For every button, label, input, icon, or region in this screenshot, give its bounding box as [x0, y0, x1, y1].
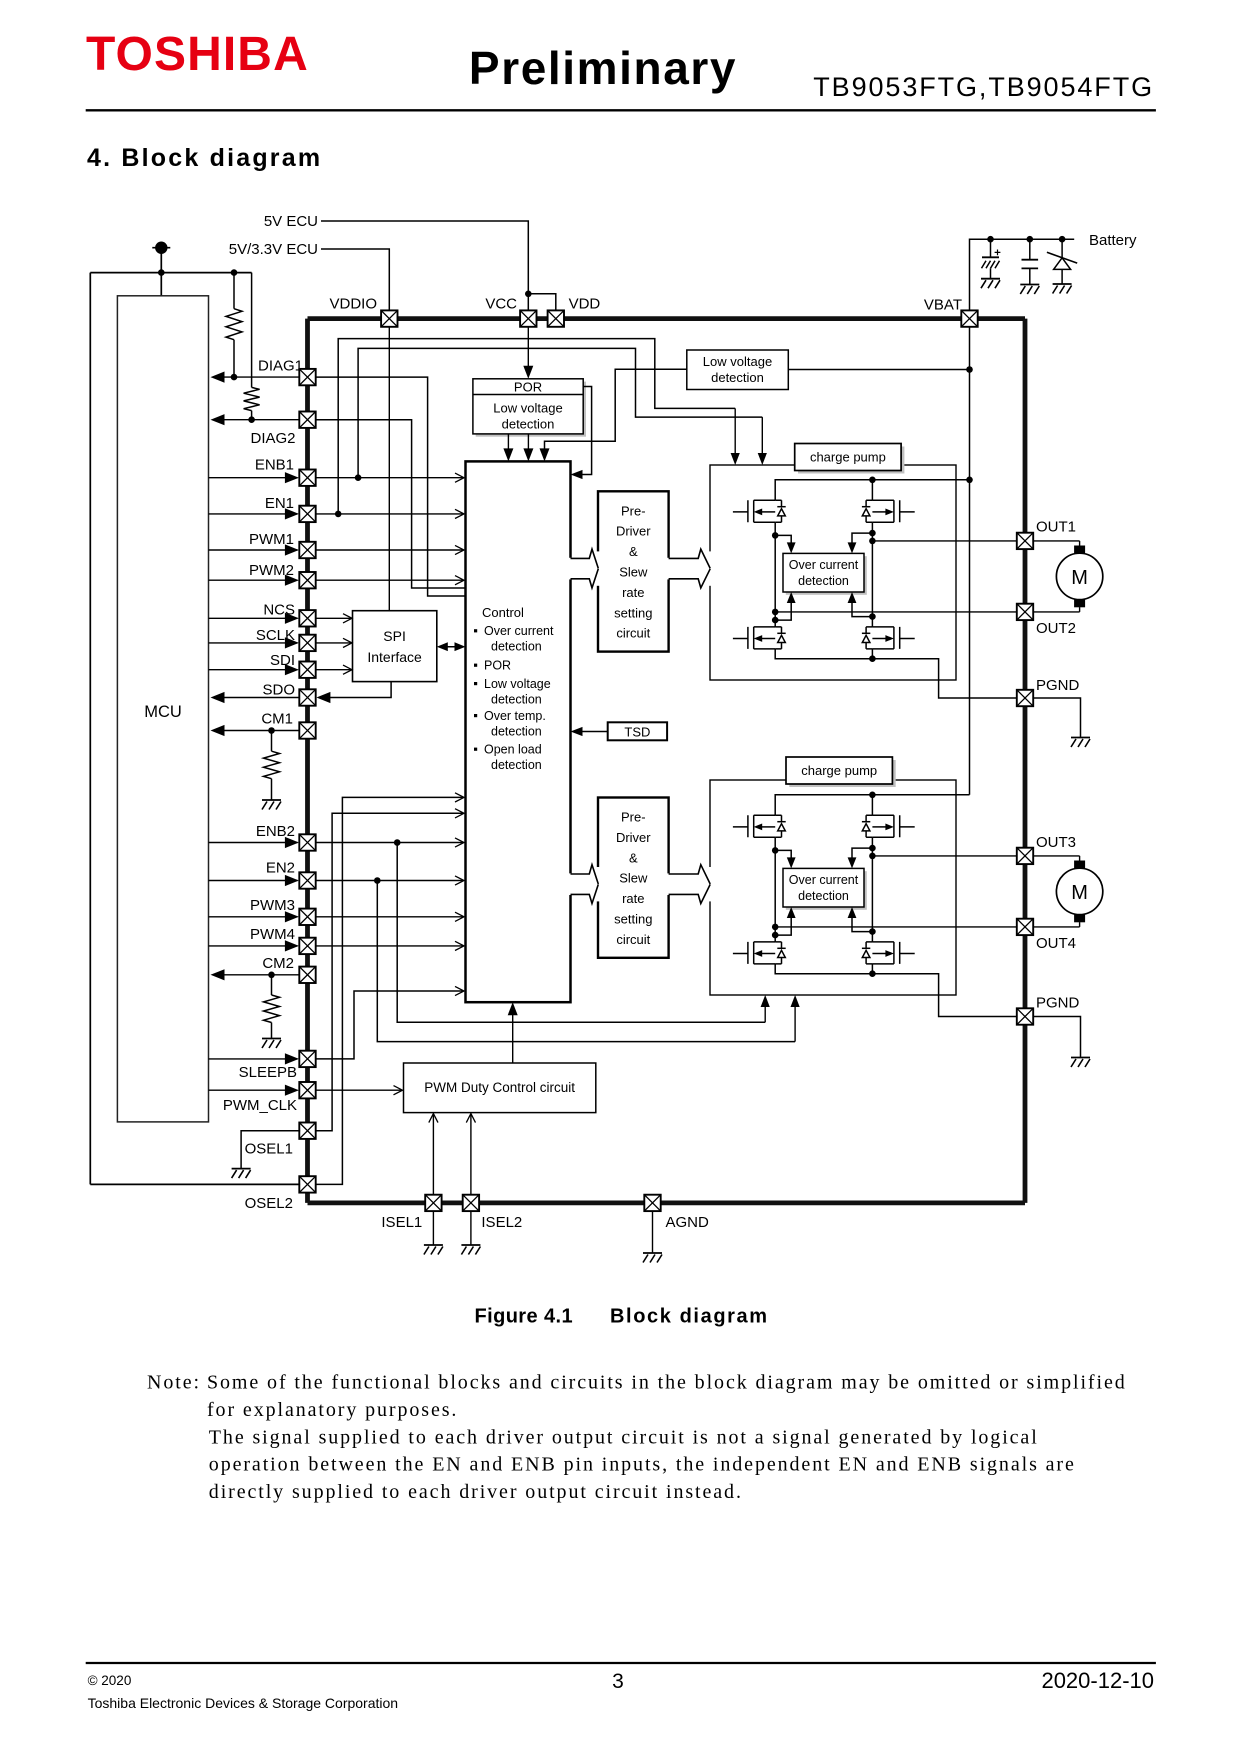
pin OUT4: [1017, 919, 1033, 935]
svg-text:VBAT: VBAT: [924, 297, 962, 314]
block arrow Pre-Driver 1 to H-bridge 1: [666, 558, 671, 580]
wire right tap to over-current detection bottom: [852, 595, 872, 617]
pin SDO: [299, 689, 315, 705]
svg-text:detection: detection: [798, 574, 849, 588]
wire PWM1 from MCU: [209, 549, 298, 551]
svg-text:detection: detection: [502, 416, 555, 431]
H-bridge box: [710, 780, 956, 995]
pin VBAT: [961, 310, 977, 326]
over current detection box shadow: [786, 556, 867, 595]
svg-text:rate: rate: [622, 585, 644, 600]
svg-text:VDD: VDD: [569, 296, 601, 313]
Low voltage detection block: [687, 350, 789, 390]
wire PWM1 to Control: [316, 549, 464, 551]
ground of AGND: [643, 1252, 662, 1254]
junction left leg upper: [772, 532, 779, 539]
wire EN2 from MCU: [209, 880, 298, 882]
svg-text:Toshiba Electronic Devices & S: Toshiba Electronic Devices & Storage Cor…: [88, 1695, 399, 1711]
over current detection box: [783, 868, 864, 907]
ground of R4: [262, 1038, 281, 1040]
wire ISEL2 to PWM Duty: [470, 1114, 472, 1195]
svg-text:OUT1: OUT1: [1036, 519, 1076, 536]
junction bottom rail: [869, 970, 876, 977]
pin OUT1: [1017, 533, 1033, 549]
svg-text:detection: detection: [491, 758, 542, 772]
junction bottom rail: [869, 655, 876, 662]
pin SLEEPB: [299, 1051, 315, 1067]
wire 5V ECU to VCC and VDD: [321, 221, 528, 311]
pin CM1: [299, 722, 315, 738]
svg-text:© 2020: © 2020: [88, 1673, 132, 1688]
wire OUT upper: [872, 855, 1016, 857]
svg-text:PWM Duty Control circuit: PWM Duty Control circuit: [424, 1080, 575, 1095]
wire left leg: [774, 837, 776, 942]
MCU block: [117, 296, 208, 1122]
junction right leg lower: [869, 928, 876, 935]
wire VBAT internal vertical: [969, 327, 971, 795]
junction ENB1 branch: [355, 474, 362, 481]
wire PWM2 to Control: [316, 579, 464, 581]
wire OUT lower: [775, 926, 1017, 928]
junction CM2 resistor: [268, 972, 275, 979]
svg-text:EN2: EN2: [266, 860, 295, 877]
svg-text:ISEL1: ISEL1: [381, 1214, 422, 1231]
pin PWM4: [299, 938, 315, 954]
pin PWM1: [299, 542, 315, 558]
svg-text:charge pump: charge pump: [801, 763, 877, 778]
wire SDI from MCU: [209, 669, 298, 671]
wire SDO to MCU: [221, 697, 300, 699]
svg-text:4. Block diagram: 4. Block diagram: [87, 144, 322, 172]
svg-text:Over current: Over current: [789, 558, 859, 572]
svg-text:POR: POR: [484, 659, 511, 673]
junction rail-R1: [231, 269, 238, 276]
pin PGND lower: [1017, 1008, 1033, 1024]
junction EN1 branch: [335, 511, 342, 518]
pin AGND: [644, 1195, 660, 1211]
low-side FET right: [862, 942, 915, 964]
wire right leg: [871, 522, 873, 627]
capacitor C2: [1029, 239, 1031, 260]
ground of C1: [981, 278, 1000, 280]
wire bridge top rail to VBAT: [775, 795, 969, 816]
junction ENB2 branch: [394, 839, 401, 846]
svg-text:VCC: VCC: [485, 296, 517, 313]
wire left tap to over-current detection bottom: [775, 595, 791, 620]
wire LVD to Control top (line C): [545, 369, 687, 458]
svg-text:directly supplied to each driv: directly supplied to each driver output …: [209, 1481, 743, 1503]
svg-text:detection: detection: [491, 640, 542, 654]
pin ISEL1: [425, 1195, 441, 1211]
ground of C2: [1020, 284, 1039, 286]
supply terminal node on left rail: [152, 247, 170, 249]
high-side FET left: [733, 500, 786, 522]
svg-text:CM1: CM1: [261, 711, 293, 728]
resistor R2 pull-up to DIAG2: [251, 273, 253, 388]
high-side FET right: [862, 500, 915, 522]
pin ISEL2: [463, 1195, 479, 1211]
svg-text:circuit: circuit: [616, 932, 650, 947]
TSD block: [608, 722, 667, 740]
junction VBAT-bridge1: [966, 477, 973, 484]
wire ENB2 from MCU: [209, 842, 298, 844]
motor M2: [1033, 855, 1079, 857]
svg-text:Open load: Open load: [484, 743, 542, 757]
svg-text:TB9053FTG,TB9054FTG: TB9053FTG,TB9054FTG: [813, 72, 1154, 102]
svg-text:ENB1: ENB1: [255, 457, 294, 474]
pin DIAG1: [299, 369, 315, 385]
capacitor C1 electrolytic: [990, 239, 992, 257]
svg-text:SDO: SDO: [262, 682, 295, 699]
wire right leg: [871, 837, 873, 942]
svg-text:SLEEPB: SLEEPB: [239, 1064, 297, 1081]
wire CM1 to MCU: [221, 730, 300, 732]
charge pump label shadow: [798, 447, 904, 474]
H-bridge box: [710, 465, 956, 680]
pin EN2: [299, 872, 315, 888]
node VCC/VDD split: [525, 291, 532, 298]
wire LVD to VBAT line: [788, 369, 969, 371]
svg-text:TOSHIBA: TOSHIBA: [86, 28, 309, 81]
resistor R3 on CM1: [271, 731, 273, 752]
svg-text:AGND: AGND: [666, 1214, 710, 1231]
wire 5V/3.3V ECU to VDDIO: [321, 249, 389, 311]
Control block: [466, 461, 571, 1002]
junction top rail right FET: [869, 477, 876, 484]
wire ENB2 to bridge 2: [397, 843, 765, 1023]
junction top rail right FET: [869, 792, 876, 799]
wire OUT lower: [775, 611, 1017, 613]
svg-text:detection: detection: [491, 724, 542, 738]
junction left leg out: [772, 609, 779, 616]
svg-text:for explanatory purposes.: for explanatory purposes.: [207, 1399, 458, 1421]
wire OSEL2 to Control: [317, 797, 464, 1184]
svg-text:Low voltage: Low voltage: [484, 677, 551, 691]
svg-text:Preliminary: Preliminary: [469, 42, 737, 94]
pin OSEL2: [299, 1176, 315, 1192]
resistor R1 pull-up to DIAG1: [233, 273, 235, 309]
wire battery rail: [970, 239, 1075, 310]
block arrow Control to Pre-Driver 2: [568, 873, 573, 895]
junction left leg lower: [772, 617, 779, 624]
high-side FET right: [862, 815, 915, 837]
svg-text:setting: setting: [614, 912, 652, 927]
ground of R3: [262, 799, 281, 801]
svg-text:PWM4: PWM4: [250, 926, 295, 943]
svg-text:Pre-: Pre-: [621, 503, 646, 518]
svg-text:M: M: [1071, 882, 1088, 904]
svg-text:Control: Control: [482, 605, 524, 620]
pin DIAG2: [299, 412, 315, 428]
pin OUT2: [1017, 604, 1033, 620]
ground of OSEL1: [232, 1168, 251, 1170]
junction battery-C1: [987, 236, 994, 243]
svg-text:M: M: [1071, 567, 1088, 589]
svg-text:Block diagram: Block diagram: [610, 1306, 769, 1328]
pin PWM_CLK: [299, 1082, 315, 1098]
pin OUT3: [1017, 848, 1033, 864]
svg-text:ISEL2: ISEL2: [481, 1214, 522, 1231]
svg-text:MCU: MCU: [144, 703, 182, 721]
pin ENB1: [299, 470, 315, 486]
wire EN2 to Control: [316, 880, 464, 882]
wire DIAG2 from Control: [317, 420, 466, 588]
svg-text:ENB2: ENB2: [256, 823, 295, 840]
svg-text:Over temp.: Over temp.: [484, 709, 546, 723]
pin SDI: [299, 662, 315, 678]
wire bridge top rail to VBAT: [775, 480, 969, 501]
wire SCLK from MCU: [209, 642, 298, 644]
high-side FET left: [733, 815, 786, 837]
svg-text:&: &: [629, 850, 638, 865]
svg-text:PWM3: PWM3: [250, 897, 295, 914]
wire ENB1 from MCU: [209, 477, 298, 479]
footer rule: [86, 1662, 1156, 1664]
wire bottom rail to PGND: [775, 649, 1017, 698]
Pre-Driver Slew rate setting circuit block 2: [598, 798, 669, 958]
motor M1: [1033, 540, 1079, 542]
wire DIAG2 to MCU: [221, 419, 300, 421]
wire SPI to SDO pin: [319, 682, 391, 698]
wire EN1 from MCU: [209, 513, 298, 515]
charge pump label box: [795, 444, 901, 471]
wire SPI to Control bidirectional arrow: [439, 646, 463, 648]
block arrow Control to Pre-Driver 1: [568, 558, 573, 580]
Pre-Driver Slew rate setting circuit block 1: [598, 491, 669, 651]
junction left leg out: [772, 924, 779, 931]
svg-text:circuit: circuit: [616, 626, 650, 641]
junction R1-DIAG1: [231, 374, 238, 381]
svg-text:OSEL1: OSEL1: [245, 1141, 293, 1158]
wire PWM4 from MCU: [209, 945, 298, 947]
POR / low voltage detection block shadow: [476, 382, 586, 437]
IC boundary left edge: [305, 319, 310, 1203]
wire TSD to Control: [574, 731, 608, 733]
IC boundary top edge: [308, 316, 1026, 321]
wire bottom rail to PGND: [775, 964, 1017, 1017]
svg-text:Figure 4.1: Figure 4.1: [475, 1306, 573, 1328]
svg-text:OUT3: OUT3: [1036, 834, 1076, 851]
junction right leg lower: [869, 613, 876, 620]
pin VDDIO: [381, 310, 397, 326]
wire EN1 to bridge 1 (line A): [338, 339, 735, 514]
IC boundary right edge: [1023, 319, 1028, 1203]
POR / low voltage detection block: [473, 379, 583, 434]
pin PWM2: [299, 572, 315, 588]
junction EN2 branch: [374, 877, 381, 884]
zener diode D1: [1061, 239, 1063, 258]
wire right tap to over-current detection bottom: [852, 910, 872, 932]
svg-text:OUT4: OUT4: [1036, 935, 1076, 952]
wire PWM3 from MCU: [209, 916, 298, 918]
wire ISEL2 to ground: [470, 1211, 472, 1245]
svg-text:setting: setting: [614, 605, 652, 620]
junction left leg upper: [772, 847, 779, 854]
svg-text:&: &: [629, 544, 638, 559]
junction VBAT-LVD: [966, 366, 973, 373]
svg-text:detection: detection: [711, 370, 764, 385]
svg-text:rate: rate: [622, 891, 644, 906]
wire SLEEPB from MCU: [209, 1058, 298, 1060]
svg-text:Over current: Over current: [789, 873, 859, 887]
junction R2-DIAG2: [248, 416, 255, 423]
wire DIAG1 to MCU: [221, 376, 300, 378]
svg-text:SDI: SDI: [270, 652, 295, 669]
wire ISEL1 to ground: [432, 1211, 434, 1245]
svg-text:POR: POR: [514, 379, 542, 394]
left supply rail vertical down to OSEL2: [89, 273, 91, 1185]
ground of ISEL1: [424, 1244, 443, 1246]
wire enable arrow left into bridge top: [734, 408, 736, 462]
wire enable arrow right into bridge bottom: [794, 998, 796, 1042]
junction right leg out: [869, 853, 876, 860]
wire PWM2 from MCU: [209, 579, 298, 581]
ground PGND upper: [1071, 737, 1090, 739]
svg-text:Over current: Over current: [484, 624, 554, 638]
wire ENB1 to Control: [316, 477, 464, 479]
resistor R4 on CM2: [271, 975, 273, 995]
low-side FET right: [862, 627, 915, 649]
wire NCS from MCU: [209, 617, 298, 619]
pin VDD: [548, 310, 564, 326]
wire enable arrow right into bridge top: [761, 417, 763, 462]
wire OUT upper: [872, 540, 1016, 542]
left supply rail horizontal: [90, 272, 251, 274]
wire SDI to SPI: [317, 669, 352, 671]
svg-text:DIAG2: DIAG2: [250, 430, 295, 447]
wire PGND upper to ground: [1033, 698, 1080, 738]
wire SCLK to SPI: [317, 642, 352, 644]
svg-text:Low voltage: Low voltage: [703, 354, 772, 369]
pin PWM3: [299, 909, 315, 925]
svg-text:detection: detection: [798, 889, 849, 903]
ground of ISEL2: [461, 1244, 480, 1246]
svg-text:PWM_CLK: PWM_CLK: [223, 1097, 297, 1114]
block arrow Pre-Driver 2 to H-bridge 2: [666, 873, 671, 895]
charge pump label shadow: [789, 760, 895, 787]
wire OSEL2 to left rail: [90, 1183, 300, 1185]
wire right tap to over-current detection top: [852, 848, 872, 865]
svg-text:Driver: Driver: [616, 830, 651, 845]
svg-text:EN1: EN1: [265, 495, 294, 512]
svg-text:Driver: Driver: [616, 524, 651, 539]
pin PGND upper: [1017, 690, 1033, 706]
wire left tap to over-current detection top: [775, 850, 791, 865]
wire AGND to ground: [652, 1211, 654, 1253]
low-side FET left: [733, 627, 786, 649]
svg-text:OUT2: OUT2: [1036, 620, 1076, 637]
wire PWM_CLK from MCU: [209, 1089, 298, 1091]
svg-text:Slew: Slew: [619, 565, 648, 580]
IC boundary bottom edge: [308, 1201, 1026, 1206]
pin CM2: [299, 967, 315, 983]
wire enable arrow left into bridge bottom: [764, 998, 766, 1022]
wire OSEL1 to Control: [317, 813, 464, 1130]
wire POR output 1 to Control: [507, 434, 509, 459]
wire POR right output to Control right edge: [574, 387, 592, 475]
wire PWM_CLK to PWM Duty Control circuit: [317, 1089, 402, 1091]
svg-text:charge pump: charge pump: [810, 450, 886, 465]
svg-text:OSEL2: OSEL2: [245, 1195, 293, 1212]
wire VCC to POR with arrow: [527, 327, 529, 376]
svg-text:Battery: Battery: [1089, 232, 1137, 249]
wire left tap to over-current detection bottom: [775, 910, 791, 935]
ground PGND lower: [1071, 1057, 1090, 1059]
junction right leg upper: [869, 530, 876, 537]
svg-text:Pre-: Pre-: [621, 810, 646, 825]
svg-text:VDDIO: VDDIO: [329, 296, 377, 313]
svg-text:The signal supplied to each dr: The signal supplied to each driver outpu…: [209, 1426, 1039, 1448]
pin NCS: [299, 610, 315, 626]
over current detection box shadow: [786, 871, 867, 910]
junction battery-C2: [1027, 236, 1034, 243]
wire right tap to over-current detection top: [852, 533, 872, 550]
PWM Duty Control circuit block: [404, 1063, 596, 1113]
wire PGND lower to ground: [1033, 1017, 1080, 1058]
SPI Interface block: [353, 611, 437, 682]
junction battery-D1: [1059, 236, 1066, 243]
svg-text:Slew: Slew: [619, 871, 648, 886]
pin VCC: [520, 310, 536, 326]
over current detection box: [783, 553, 864, 592]
charge pump label box: [786, 757, 892, 784]
junction rail-stub: [158, 269, 165, 276]
wire left tap to over-current detection top: [775, 535, 791, 550]
wire NCS to SPI: [317, 617, 352, 619]
wire ISEL1 to PWM Duty: [432, 1114, 434, 1195]
wire POR output 2 to Control: [527, 434, 529, 459]
header rule: [86, 109, 1156, 111]
svg-text:detection: detection: [491, 692, 542, 706]
svg-text:5V/3.3V ECU: 5V/3.3V ECU: [229, 241, 318, 258]
svg-text:PGND: PGND: [1036, 995, 1080, 1012]
wire EN2 to bridge 2: [377, 881, 795, 1042]
wire PWM4 to Control: [316, 945, 464, 947]
svg-text:2020-12-10: 2020-12-10: [1041, 1668, 1154, 1693]
wire PWM3 to Control: [316, 916, 464, 918]
wire CM2 to MCU: [221, 974, 300, 976]
svg-text:3: 3: [612, 1670, 624, 1693]
svg-text:5V ECU: 5V ECU: [264, 213, 318, 230]
wire VDDIO to SPI Interface: [388, 327, 390, 611]
svg-text:TSD: TSD: [624, 724, 650, 739]
svg-text:SPI: SPI: [383, 628, 406, 644]
junction left leg lower: [772, 932, 779, 939]
wire EN1 to Control: [316, 513, 464, 515]
wire SLEEPB to Control: [317, 991, 464, 1059]
low-side FET left: [733, 942, 786, 964]
ground of D1: [1053, 283, 1072, 285]
junction right leg upper: [869, 845, 876, 852]
wire ENB1 to bridge 1 (line B): [358, 348, 762, 477]
svg-text:Note:: Note:: [147, 1372, 201, 1394]
svg-text:operation between the EN and E: operation between the EN and ENB pin inp…: [209, 1454, 1076, 1476]
pin ENB2: [299, 834, 315, 850]
junction CM1 resistor: [268, 727, 275, 734]
svg-text:Some of the functional blocks: Some of the functional blocks and circui…: [207, 1372, 1127, 1394]
svg-text:PGND: PGND: [1036, 677, 1080, 694]
wire left leg: [774, 522, 776, 627]
pin OSEL1: [299, 1123, 315, 1139]
svg-text:Interface: Interface: [367, 649, 422, 665]
svg-text:CM2: CM2: [262, 955, 294, 972]
wire ENB2 to Control: [316, 842, 464, 844]
wire PWM Duty to Control: [512, 1005, 514, 1063]
wire OSEL1 to ground: [241, 1131, 300, 1169]
svg-text:Low voltage: Low voltage: [493, 400, 562, 415]
wire DIAG1 from Control: [317, 377, 466, 596]
junction right leg out: [869, 538, 876, 545]
